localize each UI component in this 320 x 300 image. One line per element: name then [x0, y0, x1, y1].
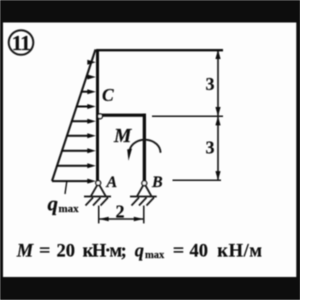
- svg-text:3: 3: [206, 138, 215, 158]
- distributed load slant line: [52, 50, 96, 182]
- support A hatching: [86, 198, 109, 206]
- label A: [106, 174, 118, 191]
- formula text M = 20 kN*m ; q_max = 40 kN/m: [16, 242, 263, 262]
- svg-text:B: B: [151, 174, 163, 191]
- dimension 2 right tick: [143, 206, 145, 224]
- support A triangle legs: [91, 185, 106, 197]
- svg-text:3: 3: [206, 74, 215, 94]
- svg-text:2: 2: [116, 202, 125, 222]
- dimension label 2: [116, 202, 125, 222]
- load arrow 7: [62, 148, 96, 153]
- frame member C to corner (horizontal): [101, 114, 146, 117]
- load arrow 5: [72, 119, 96, 124]
- svg-text:C: C: [102, 85, 114, 105]
- load arrow 4: [77, 104, 96, 109]
- frame top horizontal bar: [96, 49, 223, 51]
- svg-text:max: max: [59, 203, 80, 215]
- moment label M: [113, 126, 132, 147]
- svg-text:11: 11: [12, 31, 30, 55]
- load arrow 3: [81, 89, 95, 94]
- problem number text 11: [12, 31, 30, 55]
- support B ground line: [130, 196, 157, 198]
- label B: [151, 174, 163, 191]
- load arrow 1: [87, 60, 96, 65]
- label q_max: [48, 192, 80, 216]
- support A ground line: [84, 196, 111, 198]
- dimension extension line at B level: [173, 179, 222, 181]
- problem number badge circle: [9, 30, 34, 55]
- label C: [102, 85, 114, 105]
- dimension label 3 (upper): [206, 74, 215, 94]
- load arrow 8: [57, 163, 96, 168]
- svg-text:q: q: [48, 192, 59, 216]
- q_max leader line: [65, 181, 67, 194]
- dimension extension line at C level: [152, 115, 223, 117]
- distributed load bottom edge with arrow: [52, 179, 96, 184]
- load arrow 2: [86, 75, 96, 80]
- support B triangle legs: [137, 185, 152, 196]
- dimension 2 line with outward arrows: [99, 217, 144, 222]
- scan border top band: [0, 0, 300, 23]
- scan border right band: [296, 0, 300, 300]
- scan border bottom band: [0, 277, 300, 300]
- dimension 2 left tick: [98, 206, 100, 224]
- svg-text:A: A: [106, 174, 118, 191]
- load arrow 6: [67, 133, 96, 138]
- frame column corner to B (vertical): [143, 114, 146, 181]
- frame column AC (vertical member): [96, 49, 99, 181]
- scan border left band: [0, 0, 3, 300]
- support B hatching: [132, 198, 155, 206]
- vertical dimension line with arrows: [215, 50, 220, 181]
- hinge node circle at C: [98, 114, 103, 119]
- support A pin circle: [96, 181, 101, 186]
- support B pin circle: [142, 181, 147, 186]
- svg-text:M: M: [113, 126, 132, 147]
- moment arc arrow (counterclockwise): [127, 140, 160, 161]
- dimension label 3 (lower): [206, 138, 215, 158]
